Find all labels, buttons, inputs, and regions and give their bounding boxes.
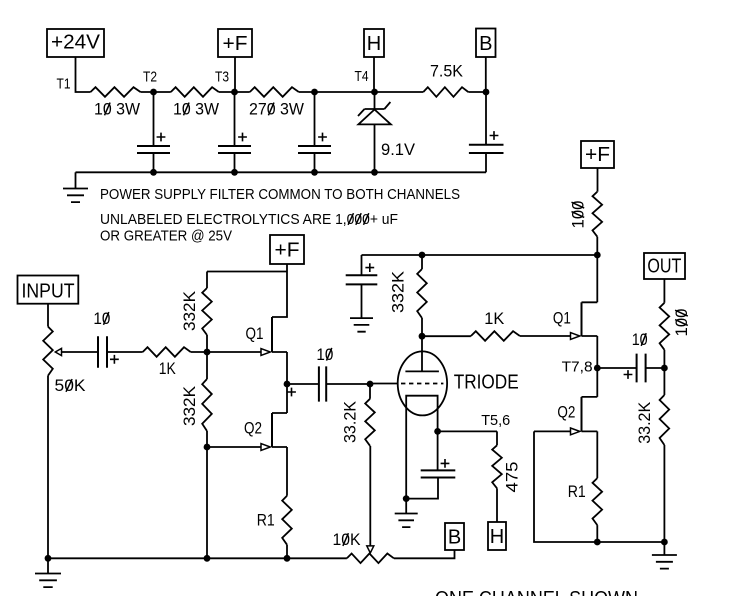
junction C1 bottom: [150, 169, 157, 176]
label 332K upper: [181, 291, 199, 331]
junction T4: [371, 89, 378, 96]
svg-text:10 3W: 10 3W: [173, 101, 219, 119]
wire +F to T3: [234, 57, 236, 92]
capacitor cathode bypass: [406, 431, 455, 498]
ground cathode: [395, 499, 418, 527]
junction 332K-2 top: [419, 252, 426, 259]
wire to T4: [299, 91, 424, 93]
svg-text:T1: T1: [57, 76, 71, 93]
svg-text:Q1: Q1: [246, 325, 264, 343]
junction triode grid node: [367, 381, 374, 388]
svg-text:10 3W: 10 3W: [94, 101, 140, 119]
wire T2 segment: [141, 91, 171, 93]
junction C3 bottom: [311, 169, 318, 176]
label 332K lower: [181, 386, 199, 426]
wire +F tee to 332K top: [207, 271, 287, 273]
ground power supply: [63, 172, 88, 202]
svg-text:POWER SUPPLY FILTER COMMON TO: POWER SUPPLY FILTER COMMON TO BOTH CHANN…: [100, 186, 460, 203]
svg-text:ONE CHANNEL SHOWN: ONE CHANNEL SHOWN: [435, 587, 638, 596]
svg-text:B: B: [448, 527, 461, 549]
wire 332K node to rail: [206, 447, 208, 558]
capacitor 10uF interstage: [287, 366, 370, 401]
junction Q1 source node: [284, 381, 291, 388]
svg-text:332K: 332K: [390, 271, 408, 313]
label 332K second stage: [390, 271, 408, 313]
svg-text:H: H: [367, 33, 381, 55]
wire H to T4: [373, 57, 375, 92]
triode V1: [370, 336, 447, 498]
wire +F down to Q1 drain: [272, 264, 287, 317]
junction output node: [661, 365, 668, 372]
svg-text:9.1V: 9.1V: [381, 141, 415, 159]
junction triode plate node: [419, 333, 426, 340]
transistor Q2 right: [534, 368, 597, 478]
junction cap3 top: [311, 89, 318, 96]
svg-text:332K: 332K: [181, 291, 199, 331]
junction +F-2 node: [594, 252, 601, 259]
junction 332K ground: [204, 555, 211, 562]
wire INPUT down: [47, 304, 49, 327]
svg-text:50K: 50K: [55, 377, 86, 395]
resistor 100 supply: [593, 168, 603, 255]
junction B node: [483, 89, 490, 96]
resistor 7.5K: [423, 87, 468, 97]
junction cathode node: [434, 428, 441, 435]
capacitor C4 electrolytic at B: [469, 92, 504, 172]
transistor Q1 left: [261, 317, 287, 384]
svg-text:R1: R1: [568, 483, 586, 501]
svg-text:Q2: Q2: [557, 404, 575, 422]
capacitor C2 electrolytic at T3: [218, 92, 251, 172]
svg-text:T7,8: T7,8: [562, 359, 593, 376]
label 10 input cap: [93, 310, 110, 328]
label 100 supply: [569, 201, 587, 229]
power supply common rail: [76, 171, 487, 173]
zener diode 9.1V: [358, 92, 391, 172]
label 50K: [55, 377, 86, 395]
resistor 10 3W first: [91, 87, 141, 97]
resistor 33.2K output: [660, 368, 670, 542]
label 10 3W first: [94, 101, 140, 119]
junction cathode ground node: [403, 495, 410, 502]
svg-text:+F: +F: [585, 144, 610, 166]
svg-text:INPUT: INPUT: [22, 280, 75, 302]
terminal flag B top: [476, 29, 496, 58]
junction R1 right bottom: [594, 539, 601, 546]
svg-text:OUT: OUT: [647, 256, 681, 278]
junction R1 ground: [284, 555, 291, 562]
capacitor bypass electrolytic: [346, 255, 378, 318]
resistor 1K second stage: [422, 331, 571, 341]
junction C2 bottom: [231, 169, 238, 176]
terminal flag OUT: [644, 253, 685, 279]
wire 7.5K to B node: [468, 91, 486, 93]
terminal flag INPUT: [18, 276, 79, 304]
resistor 33.2K grid: [365, 384, 375, 446]
resistor 332K second stage: [417, 255, 427, 336]
svg-text:7.5K: 7.5K: [430, 63, 463, 81]
svg-text:10K: 10K: [333, 531, 361, 549]
note line 2: [100, 211, 398, 228]
resistor 475: [492, 445, 502, 522]
capacitor 10uF input: [98, 336, 143, 368]
transistor Q1 right: [571, 255, 598, 368]
svg-text:Q1: Q1: [553, 310, 571, 328]
svg-text:Q2: Q2: [244, 420, 262, 438]
svg-text:33.2K: 33.2K: [341, 401, 359, 443]
power flag +F top: [218, 29, 252, 57]
label 10 output cap: [632, 331, 648, 349]
svg-text:H: H: [490, 526, 504, 548]
svg-text:OR GREATER @ 25V: OR GREATER @ 25V: [100, 228, 232, 245]
svg-text:T3: T3: [215, 69, 229, 86]
svg-text:332K: 332K: [181, 386, 199, 426]
wire cathode to 475: [438, 431, 497, 445]
svg-text:33.2K: 33.2K: [636, 402, 654, 444]
junction output ground: [661, 539, 668, 546]
second stage supply rail: [362, 254, 598, 256]
svg-text:T2: T2: [143, 69, 157, 86]
wire Q2 gate feedback loop: [534, 431, 664, 542]
wire B box down: [485, 57, 487, 92]
resistor 332K upper: [202, 272, 212, 353]
svg-text:1K: 1K: [159, 360, 176, 378]
label 10 3W second: [173, 101, 219, 119]
label 10K: [333, 531, 361, 549]
label 270 3W: [249, 101, 304, 119]
ground input stage: [35, 558, 61, 587]
power flag +F first stage: [270, 235, 304, 264]
ground bypass cap: [350, 318, 373, 332]
resistor R1 left: [282, 496, 292, 559]
svg-text:B: B: [479, 33, 492, 55]
resistor R1 right: [593, 478, 603, 542]
junction Q2 gate node: [204, 444, 211, 451]
svg-text:270 3W: 270 3W: [249, 101, 304, 119]
power flag +F right: [581, 141, 614, 168]
resistor 10 3W second: [171, 87, 219, 97]
junction first stage gate node: [204, 349, 211, 356]
junction T2: [150, 89, 157, 96]
label 100 output: [673, 309, 691, 337]
capacitor 10uF output: [597, 354, 664, 383]
svg-text:T5,6: T5,6: [481, 412, 510, 429]
junction T3: [231, 89, 238, 96]
transistor Q2 left: [207, 384, 287, 496]
ground output stage: [652, 542, 677, 569]
power flag +24V: [47, 29, 104, 57]
svg-text:TRIODE: TRIODE: [454, 371, 519, 393]
resistor 100 output: [660, 279, 670, 368]
wire +24V to T1 corner: [76, 57, 91, 92]
capacitor C3 electrolytic: [298, 92, 331, 172]
resistor 332K lower: [202, 352, 212, 447]
capacitor C1 electrolytic at T2: [137, 92, 170, 172]
svg-text:+F: +F: [223, 33, 248, 55]
terminal flag H top: [364, 29, 384, 57]
left ground rail: [48, 557, 347, 559]
junction zener bottom: [371, 169, 378, 176]
svg-text:R1: R1: [257, 512, 275, 530]
junction pot ground: [45, 555, 52, 562]
terminal flag H bottom: [488, 522, 506, 550]
terminal flag B bottom: [445, 523, 464, 550]
svg-text:+24V: +24V: [51, 32, 101, 54]
potentiometer 50K: [43, 327, 98, 559]
label 10 interstage: [316, 346, 333, 364]
svg-text:T4: T4: [355, 68, 369, 85]
potentiometer 10K: [347, 446, 455, 563]
wire T3 segment: [219, 91, 250, 93]
resistor 1K first stage: [143, 347, 262, 357]
svg-text:+F: +F: [275, 240, 300, 262]
junction T7,8: [594, 365, 601, 372]
resistor 270 3W: [250, 87, 299, 97]
svg-text:1K: 1K: [484, 310, 504, 328]
svg-text:475: 475: [503, 462, 521, 493]
